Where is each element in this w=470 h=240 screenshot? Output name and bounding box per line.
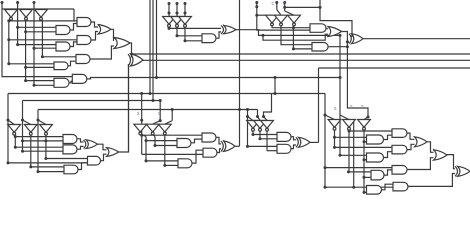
junction — [37, 170, 40, 173]
junction — [367, 116, 370, 119]
wire rail bm-u1b — [141, 120, 143, 154]
wire tm-xor out — [236, 30, 340, 36]
wire — [26, 66, 54, 68]
junction — [346, 45, 349, 48]
xor gate BMR-xor — [299, 137, 311, 147]
wire — [142, 153, 203, 155]
wire BL out up — [119, 64, 129, 152]
inverter BR-NOT2 — [343, 120, 356, 128]
junction — [184, 12, 187, 15]
wire — [31, 166, 64, 168]
or gate BR-or1 — [415, 137, 428, 147]
wire jog — [77, 139, 84, 142]
node input pin A1 — [1, 1, 4, 4]
or gate TR-or1 — [328, 27, 342, 37]
xor gate TM-xor — [224, 25, 237, 34]
junction — [168, 27, 171, 30]
inverter A-NOT2 — [20, 10, 33, 18]
wire — [15, 146, 63, 148]
wire drop bm2 — [159, 101, 161, 121]
xor gate BM-xor — [224, 141, 236, 152]
and gate BR-c2b — [392, 145, 407, 154]
wire bmr out — [310, 141, 319, 143]
junction — [283, 6, 286, 9]
wire xor-c bottom feed — [128, 64, 130, 152]
wire jog — [78, 163, 88, 170]
junction — [246, 108, 249, 111]
inverter BR-NOT1 — [328, 120, 341, 128]
inverter TM-NOT1 — [163, 17, 176, 25]
wire rail bmr-n2 — [259, 130, 261, 139]
wire — [284, 3, 286, 12]
junction — [238, 108, 241, 111]
inverter BM-NOT2 — [146, 124, 159, 132]
junction — [339, 76, 342, 79]
wire drop bm1 — [141, 94, 143, 121]
junction — [339, 154, 342, 157]
and gate BR-c1c — [367, 186, 382, 195]
wire jog — [291, 137, 296, 140]
wire jog — [291, 145, 296, 149]
junction — [140, 92, 143, 95]
wire — [260, 138, 277, 140]
wire rail br-n3 — [363, 130, 365, 193]
junction — [363, 140, 366, 143]
wire jog — [70, 42, 77, 47]
wire rail a-n1 — [8, 21, 10, 64]
wire jog bmr1 — [248, 117, 254, 121]
wire rail bl-n1 — [14, 135, 16, 147]
junction — [363, 158, 366, 161]
inverter BM-NOT3 — [158, 124, 171, 132]
wire rail a-u1 — [2, 9, 72, 77]
junction — [159, 119, 162, 122]
wire — [9, 39, 77, 41]
wire — [364, 141, 367, 143]
xor gate BR-final — [458, 166, 470, 176]
wire jog — [407, 144, 415, 149]
inverter TM-NOT2 — [171, 17, 184, 25]
and gate BR-c1b — [367, 153, 384, 162]
and gate A-c2c — [76, 55, 90, 64]
wire jog — [447, 155, 455, 169]
wire jog — [68, 61, 76, 66]
wire bus sum0 y54 — [132, 53, 470, 55]
inverter BMR-NOT1 — [247, 121, 260, 129]
wire bus y93 — [8, 93, 325, 95]
junction — [324, 186, 327, 189]
wire jog bm2 — [153, 121, 161, 125]
junction — [155, 76, 158, 79]
wire jog bl1 — [8, 120, 14, 125]
wire jog — [192, 150, 203, 163]
wire — [46, 158, 88, 160]
wire rail a-u2 — [17, 3, 19, 45]
and gate A-c2d — [72, 74, 87, 83]
wire jog — [98, 144, 107, 150]
wire bus y60 — [143, 59, 470, 61]
wire — [364, 159, 367, 161]
wire jog — [14, 134, 15, 135]
junction — [176, 34, 179, 37]
wire bm out — [235, 145, 240, 147]
wire drop bm3 — [171, 110, 173, 121]
xor gate BL-D — [86, 140, 98, 149]
wire stub tri1 — [257, 14, 272, 16]
inverter TR-NOT1 — [266, 15, 279, 23]
inverter TR-NOT2 — [275, 15, 288, 23]
wire — [34, 47, 56, 49]
wire — [267, 150, 277, 152]
wire — [364, 176, 371, 178]
wire jog bl3 — [38, 120, 46, 125]
wire — [335, 146, 393, 148]
wire — [248, 145, 278, 147]
junction — [41, 55, 44, 58]
and gate TR-c2b — [312, 43, 328, 52]
wire — [169, 25, 221, 28]
junction — [21, 150, 24, 153]
junction — [130, 53, 133, 56]
junction — [21, 139, 24, 142]
junction — [262, 115, 265, 118]
junction — [171, 108, 174, 111]
wire — [18, 26, 56, 28]
wire jog — [91, 32, 98, 41]
junction — [37, 119, 40, 122]
wire jog — [285, 11, 294, 15]
inverter BL-NOT3 — [40, 125, 53, 133]
wire c2d out to bus77 — [87, 78, 340, 79]
wire rail bm-n3 — [164, 134, 166, 165]
wire jog — [41, 19, 42, 21]
junction — [184, 39, 187, 42]
wire jog — [216, 32, 221, 38]
wire jog — [191, 139, 202, 143]
wire rail bl-n2 — [30, 135, 32, 167]
wire or1 out drop — [342, 32, 369, 118]
junction — [176, 12, 179, 15]
wire t1 rail — [272, 25, 310, 28]
junction — [33, 84, 36, 87]
wire jog br1 — [325, 115, 335, 120]
wire bus y109 — [38, 109, 258, 111]
node tr pin1 — [255, 1, 258, 4]
junction — [292, 26, 295, 29]
junction — [14, 135, 17, 138]
junction — [7, 119, 10, 122]
wire bus y38 out — [363, 38, 470, 40]
wire header drop — [74, 9, 77, 21]
junction — [33, 47, 36, 50]
and gate BR-c1x — [371, 170, 384, 180]
junction — [339, 34, 342, 37]
wire rail br-n1 — [334, 130, 336, 148]
wire — [9, 20, 74, 22]
and gate A-c1x — [54, 62, 68, 70]
wire tr header — [285, 6, 320, 8]
wire rail br-n2 — [348, 130, 350, 172]
junction — [7, 62, 10, 65]
junction — [274, 76, 277, 79]
wire drop x340 — [339, 35, 341, 155]
wire top rail v156 — [156, 0, 158, 78]
wire — [253, 134, 277, 136]
junction — [24, 30, 27, 33]
wire jog — [382, 184, 394, 190]
wire jog — [408, 174, 455, 187]
wire drop bmr3 — [264, 94, 272, 117]
and gate A-c1b — [56, 42, 70, 51]
wire bus y100 — [23, 100, 161, 102]
wire rail br-u3 — [353, 121, 355, 188]
wire jog — [70, 24, 77, 31]
junction — [262, 34, 265, 37]
wire — [146, 160, 178, 162]
wire jog — [217, 149, 221, 153]
wire rail bmr-n1 — [252, 130, 254, 135]
inverter TM-NOT3 — [179, 17, 192, 25]
inverter A-NOT3 — [35, 10, 48, 18]
and gate BM-c1b — [178, 159, 192, 168]
wire — [177, 25, 202, 36]
wire rail tr-u — [257, 15, 310, 30]
and gate BMR-a1 — [277, 132, 291, 141]
wire top rail v150 — [149, 0, 151, 94]
wire — [325, 186, 393, 188]
wire jog bm3 — [165, 121, 172, 125]
wire — [349, 130, 392, 132]
wire — [38, 171, 64, 173]
junction — [145, 139, 148, 142]
wire jog tr3in — [364, 117, 368, 120]
node tm pin2 — [176, 2, 179, 5]
wire — [23, 140, 64, 142]
wire bmr out rail — [318, 68, 320, 142]
wire — [325, 167, 392, 169]
inverter BL-NOT2 — [24, 125, 37, 133]
wire jog — [407, 133, 415, 139]
wire jog — [77, 146, 84, 149]
junction — [154, 144, 157, 147]
junction — [14, 146, 17, 149]
and gate A-c1c — [54, 78, 69, 87]
junction — [44, 157, 47, 160]
junction — [246, 145, 249, 148]
junction — [7, 19, 10, 22]
node input pin A2 — [16, 1, 19, 4]
wire t2 rail — [281, 25, 312, 45]
wire rail bm-n2 — [154, 137, 156, 146]
wire — [1, 3, 3, 10]
wire — [146, 140, 177, 142]
wire — [26, 80, 54, 82]
node tr pin3 — [283, 1, 286, 4]
junction — [324, 114, 327, 117]
or gate A-or1 — [98, 25, 111, 35]
and gate TM-and — [202, 34, 216, 43]
wire — [168, 4, 170, 17]
wire xor bot tap — [347, 41, 349, 43]
wire jog — [101, 154, 107, 161]
wire — [34, 84, 54, 86]
junction — [21, 119, 24, 122]
xor gate TR-xor — [352, 34, 364, 44]
wire or1 bot feed — [263, 34, 328, 40]
junction — [363, 191, 366, 194]
wire — [335, 136, 367, 138]
wire — [326, 28, 328, 29]
or gate A-or2 — [114, 38, 130, 49]
wire — [349, 171, 371, 173]
wire — [364, 191, 367, 193]
wire jog — [140, 134, 146, 136]
wire rail bl-u2 — [22, 120, 24, 151]
node tm pin3 — [184, 2, 187, 5]
wire jog — [407, 158, 434, 170]
wire or2 out — [130, 43, 132, 54]
and gate BR-c1a — [367, 135, 384, 144]
wire rail bm-n1 — [145, 137, 147, 161]
and gate BMR-a2 — [277, 144, 291, 153]
junction — [152, 99, 155, 102]
junction — [363, 176, 366, 179]
wire jog — [9, 19, 11, 21]
and gate BL-B — [63, 145, 77, 154]
inverter TR-NOT3 — [288, 15, 301, 23]
wire rail a-n2 — [25, 20, 27, 81]
junction — [255, 5, 258, 8]
wire jog — [384, 152, 393, 158]
junction — [255, 14, 258, 17]
wire rail bmr-n3 — [266, 130, 268, 151]
junction — [348, 130, 351, 133]
wire jog — [69, 81, 72, 83]
wire jog — [384, 135, 393, 139]
wire jog bl2 — [23, 120, 31, 125]
and gate BR-c2d — [393, 182, 408, 191]
wire — [176, 4, 178, 17]
inverter BMR-NOT2 — [254, 121, 267, 129]
junction — [7, 161, 10, 164]
junction — [168, 12, 171, 15]
wire top rail v239 — [239, 0, 241, 146]
and gate A-c1a — [56, 26, 70, 35]
junction — [252, 133, 255, 136]
wire bus93 drop x325 — [324, 94, 326, 188]
and gate BM-c2b — [203, 148, 217, 157]
junction — [163, 164, 166, 167]
and gate BL-G — [64, 165, 78, 174]
junction — [24, 79, 27, 82]
wire — [9, 63, 54, 65]
junction — [159, 99, 162, 102]
junction — [140, 119, 143, 122]
junction — [44, 139, 47, 142]
junction — [145, 159, 148, 162]
wire — [185, 25, 202, 41]
inverter BR-NOT3 — [358, 120, 371, 128]
wire jog — [216, 137, 221, 144]
wire — [184, 4, 186, 17]
wire jog — [90, 46, 114, 59]
junction — [324, 166, 327, 169]
wire top rail v153 — [152, 0, 154, 101]
junction — [333, 136, 336, 139]
wire jog bmr3b — [264, 117, 268, 121]
junction — [16, 43, 19, 46]
wire — [23, 150, 64, 152]
xor gate A-xor — [131, 54, 144, 66]
junction — [149, 92, 152, 95]
junction — [16, 26, 19, 29]
and gate A-c2a — [77, 18, 91, 27]
wire jog bmr2 — [258, 110, 261, 121]
junction — [346, 40, 349, 43]
or gate BL-F — [107, 148, 119, 157]
junction — [292, 47, 295, 50]
and gate TR-c2a — [310, 24, 326, 33]
wire — [256, 3, 258, 16]
wire jog — [427, 142, 434, 153]
wire rail bl-u3 — [37, 120, 39, 172]
wire — [340, 154, 367, 156]
junction — [333, 146, 336, 149]
wire — [15, 136, 63, 138]
and gate BR-c2c — [392, 166, 407, 175]
wire c bottom — [8, 162, 88, 164]
wire rail bl-n3 — [45, 135, 47, 159]
wire drop x275 — [274, 78, 276, 94]
wire rail a-u3 — [33, 3, 35, 86]
wire jog — [91, 22, 98, 27]
wire — [26, 31, 56, 33]
wire jog br2 — [340, 115, 349, 120]
and gate BM-c2a — [202, 133, 216, 142]
junction — [256, 115, 259, 118]
wire — [142, 134, 202, 136]
wire — [42, 56, 76, 58]
wire left drop x23 — [22, 101, 24, 121]
wire — [18, 44, 56, 46]
junction — [274, 92, 277, 95]
inverter BM-NOT1 — [134, 124, 147, 132]
inverter A-NOT1 — [5, 10, 18, 18]
wire input header A — [2, 8, 74, 10]
junction — [259, 137, 262, 140]
and gate BL-C — [88, 156, 101, 165]
wire — [155, 145, 177, 147]
junction — [319, 6, 322, 9]
wire — [276, 3, 278, 10]
wire rail a-n3 — [41, 21, 43, 57]
node tm pin1 — [168, 2, 171, 5]
junction — [140, 134, 143, 137]
junction — [24, 66, 27, 69]
wire — [131, 54, 133, 58]
wire jog — [277, 10, 281, 16]
inverter BL-NOT1 — [8, 125, 21, 133]
wire bus y68 — [319, 67, 470, 69]
junction — [7, 38, 10, 41]
wire jog — [111, 29, 114, 40]
wire xor top feed — [320, 0, 352, 36]
wire jog — [153, 134, 155, 136]
wire — [165, 164, 178, 166]
wire c2b out — [328, 46, 347, 48]
node tr pin2 — [275, 1, 278, 4]
and gate BM-c1a — [177, 139, 191, 148]
